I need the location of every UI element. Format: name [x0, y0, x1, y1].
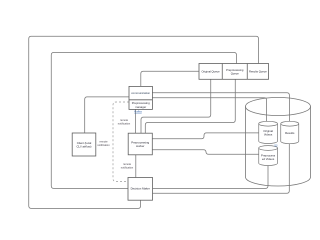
svg-text:Videos: Videos — [264, 133, 273, 137]
svg-text:Original Queue: Original Queue — [202, 70, 221, 74]
svg-text:notification: notification — [121, 166, 134, 170]
wire: preprocessing manager to preprocessing worker — [135, 110, 137, 134]
wire: original queue to preprocessing worker — [141, 79, 211, 133]
svg-text:Results: Results — [285, 131, 295, 135]
preprocessed videos cylinder — [259, 146, 278, 166]
svg-text:remote: remote — [99, 140, 108, 144]
svg-text:manager: manager — [135, 105, 146, 109]
svg-text:notification: notification — [97, 143, 110, 147]
wire: preprocessing queue to preprocessing worker — [145, 79, 235, 133]
wire: communication box top to original queue — [141, 71, 199, 86]
svg-text:Decision Maker: Decision Maker — [131, 187, 150, 191]
wire: decision maker to results cylinder bottom — [153, 144, 290, 193]
wire: communication box to original videos cylinder top — [153, 98, 267, 122]
wire: preprocessing queue to decision maker (second loop) — [51, 53, 236, 189]
communication / preprocessing manager box U1 — [129, 86, 152, 109]
wire: decision maker to results queue (outer loop) — [29, 36, 259, 208]
wire: decision maker to preprocessed videos cylinder bottom — [153, 166, 268, 189]
dashed container boundary — [113, 102, 129, 182]
svg-text:remote: remote — [123, 162, 132, 166]
original videos cylinder — [259, 121, 278, 143]
decision maker box — [128, 178, 153, 201]
big storage cylinder — [246, 98, 311, 187]
svg-text:communication: communication — [131, 91, 150, 95]
svg-text:notification: notification — [118, 122, 131, 126]
queue boxes row — [199, 64, 269, 80]
svg-text:Results Queue: Results Queue — [249, 70, 267, 74]
wire: preprocessing worker to preprocessed videos cylinder — [152, 150, 258, 154]
svg-text:remote: remote — [120, 118, 129, 122]
svg-text:worker: worker — [136, 144, 144, 148]
preprocessing worker box — [128, 133, 152, 155]
wire: preprocessing worker to original videos cylinder — [152, 133, 258, 139]
results cylinder — [281, 121, 299, 143]
svg-text:Kafka: Kafka — [134, 110, 142, 114]
svg-text:Preprocessing: Preprocessing — [226, 68, 244, 72]
client box — [72, 133, 96, 156]
wire: client box to communication box — [85, 97, 129, 133]
svg-text:S3: S3 — [274, 144, 278, 147]
wire: preprocessing worker to decision maker — [135, 155, 137, 178]
svg-text:ed Videos: ed Videos — [262, 157, 275, 161]
svg-text:CLI/ airflow): CLI/ airflow) — [77, 145, 92, 149]
svg-text:Queue: Queue — [231, 71, 240, 75]
wire: communication box to results cylinder top — [153, 93, 290, 122]
